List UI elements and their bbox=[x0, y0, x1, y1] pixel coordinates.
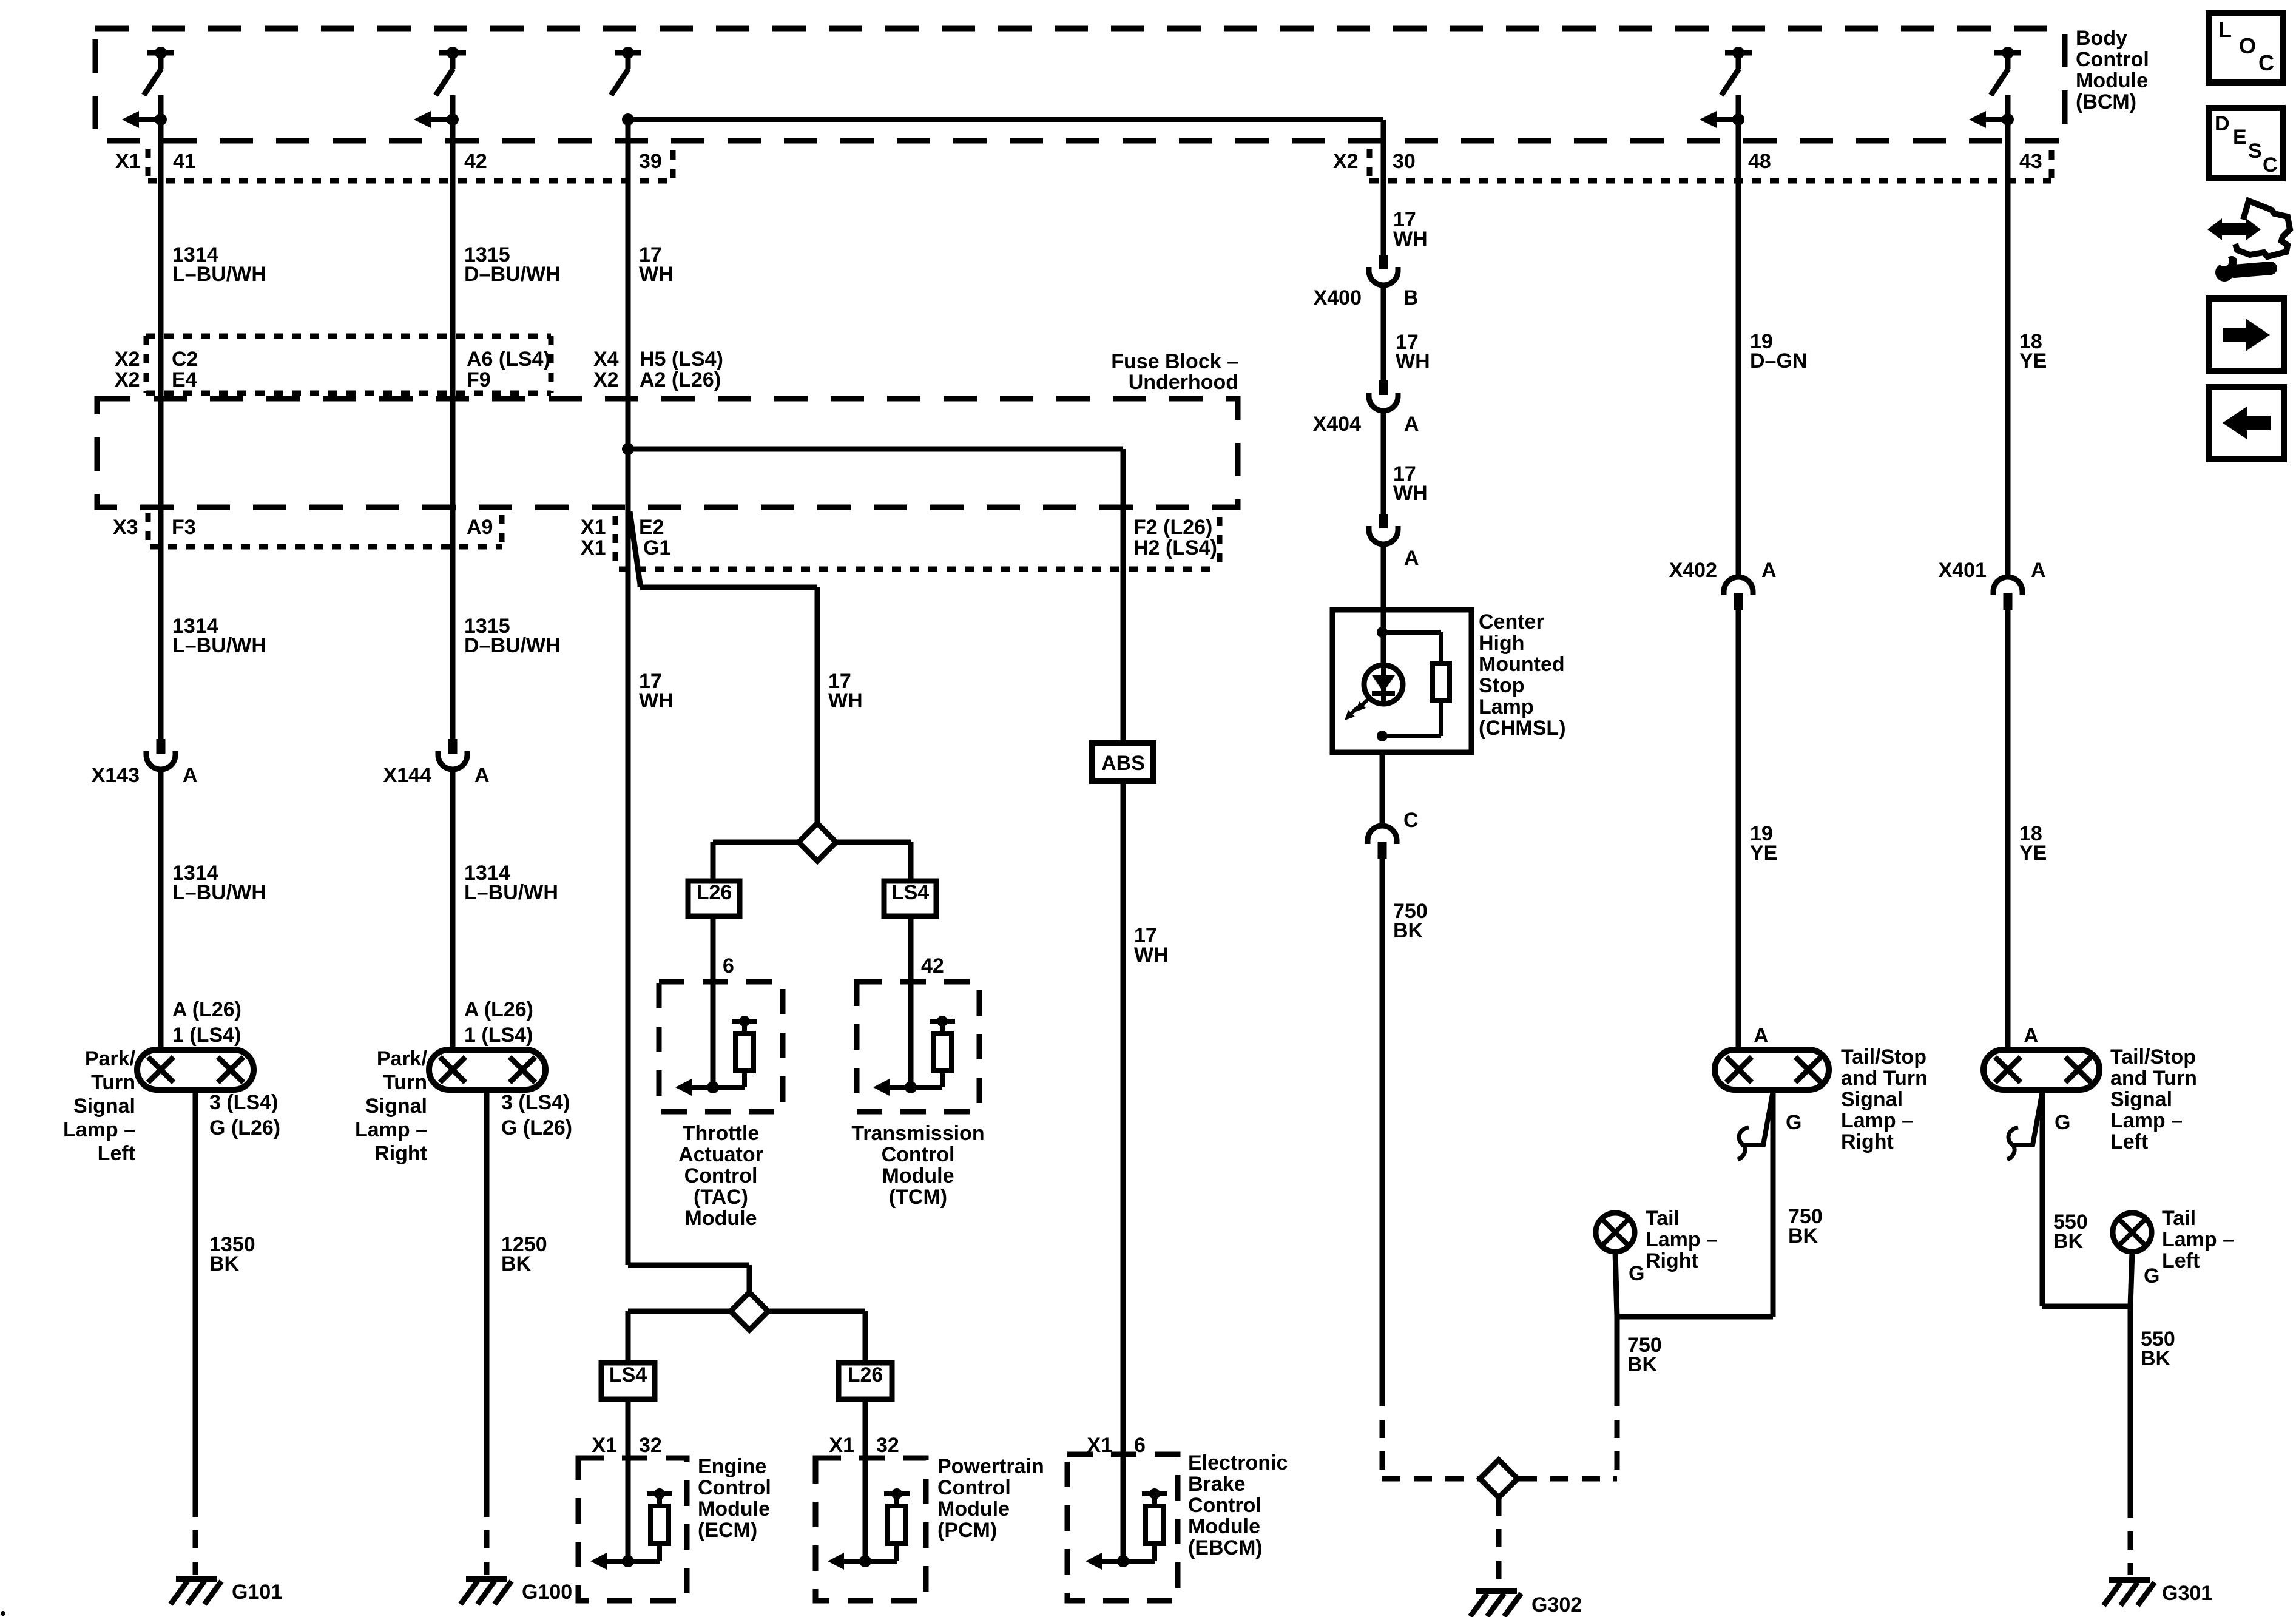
svg-text:X1: X1 bbox=[829, 1434, 854, 1457]
svg-text:Turn: Turn bbox=[91, 1071, 135, 1094]
wire: 17 WH X404 to body connector bbox=[1381, 410, 1386, 514]
svg-text:L: L bbox=[2218, 17, 2232, 42]
svg-text:WH: WH bbox=[639, 689, 674, 712]
svg-text:A: A bbox=[1761, 559, 1777, 582]
wire: 1315 D-BU/WH from BCM pin 42 bbox=[450, 95, 456, 739]
svg-text:X404: X404 bbox=[1313, 413, 1361, 436]
svg-text:30: 30 bbox=[1393, 150, 1416, 173]
wire: 17 WH G1 branch horizontal bbox=[638, 584, 643, 587]
wire: 550 BK to G301 bbox=[2128, 1306, 2133, 1500]
svg-text:Module: Module bbox=[882, 1164, 954, 1187]
wire: 17 WH ABS to EBCM bbox=[1121, 781, 1126, 1561]
svg-text:D–BU/WH: D–BU/WH bbox=[464, 263, 561, 286]
svg-text:LS4: LS4 bbox=[891, 881, 929, 904]
svg-text:Lamp –: Lamp – bbox=[1841, 1109, 1913, 1132]
icon box: DESC bbox=[2209, 108, 2283, 178]
svg-text:Signal: Signal bbox=[1841, 1088, 1903, 1111]
internal pull-up resistor and input arrow of EBCM bbox=[1142, 1491, 1167, 1496]
BCM driver switch output pin 43 bbox=[1994, 50, 2021, 56]
engine option box LS4 (lower) bbox=[601, 1363, 655, 1399]
svg-text:BK: BK bbox=[209, 1252, 240, 1275]
module box: Engine Control Module (ECM), dashed bbox=[578, 1458, 687, 1601]
svg-text:Left: Left bbox=[2162, 1249, 2200, 1272]
svg-text:43: 43 bbox=[2019, 150, 2042, 173]
engine option box L26 bbox=[688, 881, 740, 916]
lamp: Park/Turn Signal Lamp - Right (dual filament) bbox=[429, 1050, 545, 1090]
junction dot in fuse block bbox=[622, 443, 634, 455]
svg-text:A2 (L26): A2 (L26) bbox=[640, 368, 721, 391]
svg-text:H5 (LS4): H5 (LS4) bbox=[640, 348, 723, 371]
connector band X2/X2 dotted box bbox=[146, 334, 551, 339]
svg-text:D–GN: D–GN bbox=[1750, 349, 1807, 373]
wire: 750 BK dashed to splice S3 bbox=[1615, 1388, 1620, 1479]
icon: vehicle repair (double arrow, body outline, wrench) bbox=[2216, 223, 2252, 235]
splice diamond S1 (17 WH) bbox=[799, 823, 836, 861]
svg-text:Lamp –: Lamp – bbox=[2162, 1228, 2234, 1251]
svg-text:Lamp –: Lamp – bbox=[63, 1118, 135, 1141]
wire: 17 WH from BCM pin 39 bbox=[626, 120, 631, 511]
svg-text:X1: X1 bbox=[581, 516, 606, 539]
svg-text:39: 39 bbox=[639, 150, 662, 173]
lamp: Tail Lamp - Left bbox=[2113, 1213, 2152, 1252]
wire: 550 BK lamp left ground bbox=[2040, 1090, 2045, 1306]
connector band X3 dotted line bbox=[150, 544, 502, 550]
wire: dashed splice to G302 bbox=[1496, 1497, 1502, 1586]
wire: dashed drop to G101 bbox=[193, 1499, 198, 1575]
wire: 17 WH from BCM pin 30 bbox=[1381, 142, 1386, 255]
component box ABS bbox=[1092, 743, 1153, 781]
wire: 17 WH X400 to X404 bbox=[1381, 284, 1386, 380]
module box: Transmission Control Module (TCM), dashed bbox=[857, 982, 979, 1112]
svg-text:X4: X4 bbox=[593, 348, 619, 371]
svg-text:A: A bbox=[2024, 1024, 2039, 1047]
svg-text:C2: C2 bbox=[172, 348, 198, 371]
svg-text:Park/: Park/ bbox=[377, 1047, 428, 1070]
wire: L26 to TAC pin 6 bbox=[711, 916, 716, 1089]
svg-text:G (L26): G (L26) bbox=[501, 1116, 572, 1139]
wire: CHMSL resistor bottom bbox=[1439, 701, 1443, 736]
svg-text:Control: Control bbox=[937, 1476, 1011, 1499]
svg-text:A: A bbox=[1404, 413, 1419, 436]
svg-text:G302: G302 bbox=[1531, 1593, 1582, 1616]
svg-text:X1: X1 bbox=[115, 150, 141, 173]
svg-text:X2: X2 bbox=[1333, 150, 1359, 173]
svg-text:F3: F3 bbox=[172, 516, 196, 539]
svg-text:Control: Control bbox=[2076, 48, 2149, 71]
svg-text:A: A bbox=[1404, 547, 1419, 570]
svg-text:Control: Control bbox=[882, 1143, 955, 1166]
svg-text:Turn: Turn bbox=[383, 1071, 427, 1094]
svg-text:L–BU/WH: L–BU/WH bbox=[172, 881, 266, 904]
svg-text:Tail/Stop: Tail/Stop bbox=[1841, 1045, 1926, 1068]
connector band X1 dotted line bbox=[148, 178, 674, 184]
svg-text:Body: Body bbox=[2076, 27, 2127, 50]
svg-text:Tail: Tail bbox=[1646, 1207, 1680, 1230]
wire: 17 WH to ABS bbox=[1121, 449, 1126, 745]
wire: tail lamp right ground lead bbox=[1615, 1252, 1617, 1317]
svg-text:A6 (LS4): A6 (LS4) bbox=[467, 348, 550, 371]
svg-text:G: G bbox=[2055, 1111, 2070, 1134]
wire: branch from pin 39 driver to pin 30 (horizontal) bbox=[628, 117, 1383, 122]
svg-text:ABS: ABS bbox=[1101, 752, 1145, 775]
in-line connector X400 bbox=[1379, 255, 1388, 269]
svg-text:Module: Module bbox=[685, 1207, 757, 1230]
wire: S2 right arm to L26 bbox=[767, 1309, 865, 1314]
svg-text:BK: BK bbox=[1627, 1353, 1658, 1376]
svg-text:WH: WH bbox=[1393, 228, 1428, 251]
svg-text:F2 (L26): F2 (L26) bbox=[1133, 516, 1212, 539]
svg-text:LS4: LS4 bbox=[609, 1363, 647, 1386]
ground symbol G100 bbox=[466, 1576, 507, 1582]
svg-text:A: A bbox=[1754, 1024, 1769, 1047]
svg-text:Left: Left bbox=[2110, 1130, 2148, 1153]
wire: S1 right arm to LS4 bbox=[836, 840, 911, 845]
engine option box L26 (lower) bbox=[839, 1363, 892, 1399]
svg-text:WH: WH bbox=[1393, 482, 1428, 505]
in-line connector X402 bbox=[1724, 577, 1753, 595]
svg-text:BK: BK bbox=[2053, 1230, 2084, 1253]
ground symbol G101 bbox=[176, 1576, 217, 1582]
svg-text:Electronic: Electronic bbox=[1188, 1451, 1288, 1474]
wire: 750 BK to splice bbox=[1615, 1317, 1620, 1388]
svg-text:(TAC): (TAC) bbox=[694, 1186, 748, 1209]
wire: 1314 L-BU/WH below X144 bbox=[450, 768, 456, 1052]
svg-text:Lamp: Lamp bbox=[1479, 695, 1534, 718]
svg-text:G100: G100 bbox=[522, 1581, 572, 1604]
svg-text:C: C bbox=[2263, 154, 2278, 177]
svg-text:L–BU/WH: L–BU/WH bbox=[172, 634, 266, 657]
wire: 550 BK dashed to G301 bbox=[2128, 1500, 2133, 1575]
svg-text:L–BU/WH: L–BU/WH bbox=[464, 881, 558, 904]
svg-text:Powertrain: Powertrain bbox=[937, 1455, 1044, 1478]
svg-text:48: 48 bbox=[1748, 150, 1771, 173]
svg-text:Lamp –: Lamp – bbox=[355, 1118, 427, 1141]
svg-text:G: G bbox=[1629, 1262, 1644, 1285]
BCM driver switch output pin 42 bbox=[439, 50, 466, 56]
junction dot CHMSL top bbox=[1377, 627, 1388, 638]
in-line connector CHMSL pigtail C bbox=[1368, 826, 1397, 844]
svg-text:Control: Control bbox=[698, 1476, 771, 1499]
svg-text:Brake: Brake bbox=[1188, 1473, 1246, 1496]
wire: LS4 to ECM pin 32 bbox=[626, 1399, 631, 1561]
svg-text:BK: BK bbox=[2141, 1347, 2171, 1370]
svg-text:1 (LS4): 1 (LS4) bbox=[464, 1024, 533, 1047]
svg-text:Signal: Signal bbox=[2110, 1088, 2172, 1111]
BCM driver switch output pin 48 bbox=[1725, 50, 1752, 56]
LED lamp symbol in CHMSL bbox=[1364, 665, 1403, 704]
in-line connector CHMSL pigtail A bbox=[1379, 514, 1388, 528]
splice diamond S3 (750 BK grounds) bbox=[1480, 1460, 1518, 1497]
svg-text:BK: BK bbox=[1788, 1224, 1818, 1247]
lamp: Tail/Stop and Turn Signal Lamp - Left (dual filament) bbox=[1984, 1050, 2099, 1090]
junction dot CHMSL bottom bbox=[1377, 731, 1388, 741]
svg-text:X2: X2 bbox=[115, 368, 140, 391]
internal pull-up resistor and input arrow of TCM module bbox=[930, 1019, 955, 1024]
svg-text:YE: YE bbox=[2019, 842, 2047, 865]
wire: 1250 BK from lamp right bbox=[484, 1090, 490, 1499]
svg-text:(PCM): (PCM) bbox=[937, 1519, 997, 1542]
ground symbol G301 bbox=[2109, 1577, 2150, 1583]
lamp: Tail Lamp - Right bbox=[1596, 1213, 1635, 1252]
svg-text:High: High bbox=[1479, 632, 1525, 655]
wire: 19 D-GN from BCM pin 48 bbox=[1736, 95, 1741, 578]
svg-text:X402: X402 bbox=[1669, 559, 1717, 582]
splice diamond S2 (17 WH) bbox=[731, 1292, 768, 1330]
module box: Throttle Actuator Control (TAC) Module, dashed bbox=[659, 982, 783, 1112]
svg-text:Transmission: Transmission bbox=[851, 1122, 984, 1145]
svg-text:D: D bbox=[2215, 112, 2230, 135]
wire: CHMSL internal resistor branch bbox=[1382, 630, 1441, 635]
svg-text:Module: Module bbox=[1188, 1515, 1260, 1538]
module box: Fuse Block - Underhood, dashed bbox=[97, 399, 1238, 507]
svg-text:(TCM): (TCM) bbox=[889, 1186, 947, 1209]
BCM driver switch output pin 41 bbox=[147, 50, 174, 56]
svg-text:WH: WH bbox=[828, 689, 863, 712]
icon box: LOC bbox=[2209, 13, 2283, 83]
svg-text:X3: X3 bbox=[113, 516, 138, 539]
svg-text:H2 (LS4): H2 (LS4) bbox=[1133, 536, 1217, 559]
in-line connector X404 bbox=[1379, 380, 1388, 395]
svg-text:Module: Module bbox=[937, 1497, 1010, 1521]
svg-text:G (L26): G (L26) bbox=[209, 1116, 280, 1139]
svg-text:YE: YE bbox=[2019, 349, 2047, 373]
svg-text:X2: X2 bbox=[115, 348, 140, 371]
svg-text:L26: L26 bbox=[697, 881, 732, 904]
BCM internal arrow at pin 43 bbox=[1986, 117, 2008, 122]
svg-text:G301: G301 bbox=[2162, 1582, 2212, 1605]
svg-text:Signal: Signal bbox=[73, 1095, 135, 1118]
wire: 1314 L-BU/WH from BCM pin 41 bbox=[158, 95, 164, 739]
svg-text:D–BU/WH: D–BU/WH bbox=[464, 634, 561, 657]
wire: tail lamp left ground lead bbox=[2130, 1252, 2132, 1306]
wire: 18 YE from BCM pin 43 bbox=[2005, 95, 2011, 578]
wire: 1350 BK from lamp left bbox=[193, 1090, 198, 1499]
svg-text:Right: Right bbox=[1646, 1249, 1698, 1272]
wire: 750 BK lamp right ground bbox=[1771, 1090, 1776, 1317]
svg-text:WH: WH bbox=[639, 263, 674, 286]
svg-text:X2: X2 bbox=[593, 368, 619, 391]
svg-text:X1: X1 bbox=[592, 1434, 617, 1457]
svg-text:O: O bbox=[2239, 33, 2256, 58]
lamp: Park/Turn Signal Lamp - Left (dual filament) bbox=[137, 1050, 254, 1090]
lamp: Tail/Stop and Turn Signal Lamp - Right (dual filament) bbox=[1715, 1050, 1829, 1090]
svg-text:Mounted: Mounted bbox=[1479, 653, 1565, 676]
lamp housing pigtail hook right bbox=[1741, 1091, 1773, 1145]
svg-text:3 (LS4): 3 (LS4) bbox=[501, 1091, 570, 1114]
svg-text:BK: BK bbox=[1393, 919, 1423, 942]
svg-text:Control: Control bbox=[1188, 1494, 1261, 1517]
svg-text:C: C bbox=[1403, 809, 1419, 832]
BCM internal arrow at pin 41 bbox=[139, 117, 161, 122]
wire: 750 BK below CHMSL bbox=[1380, 859, 1385, 1388]
module box: Electronic Brake Control Module (EBCM), dashed bbox=[1067, 1454, 1178, 1601]
internal pull-up resistor and input arrow of ECM bbox=[647, 1491, 672, 1496]
wire: 1314 L-BU/WH below X143 bbox=[158, 768, 164, 1052]
svg-text:Fuse Block –: Fuse Block – bbox=[1111, 350, 1238, 373]
svg-text:X143: X143 bbox=[92, 764, 140, 787]
svg-text:G101: G101 bbox=[232, 1581, 282, 1604]
svg-text:A9: A9 bbox=[467, 516, 493, 539]
svg-text:32: 32 bbox=[876, 1434, 899, 1457]
wire: 17 WH into CHMSL bbox=[1381, 543, 1386, 665]
svg-text:6: 6 bbox=[723, 954, 734, 977]
svg-text:32: 32 bbox=[639, 1434, 662, 1457]
icon box: arrow right bbox=[2209, 299, 2284, 371]
svg-text:F9: F9 bbox=[467, 368, 491, 391]
icon box: arrow left bbox=[2209, 387, 2284, 459]
svg-text:X401: X401 bbox=[1939, 559, 1987, 582]
junction dot at driver pin 39 output bbox=[622, 113, 634, 126]
wire: fuse block internal to ABS feed bbox=[628, 447, 1123, 452]
svg-text:Module: Module bbox=[2076, 69, 2148, 92]
in-line connector X143 bbox=[157, 739, 166, 754]
svg-text:Actuator: Actuator bbox=[678, 1143, 763, 1166]
ground symbol G302 bbox=[1476, 1588, 1517, 1594]
module box: Powertrain Control Module (PCM), dashed bbox=[815, 1458, 926, 1601]
wire: 17 WH main below fuse block (E2) bbox=[626, 511, 631, 1265]
svg-text:A (L26): A (L26) bbox=[172, 998, 241, 1021]
svg-text:S: S bbox=[2248, 140, 2262, 163]
svg-text:(BCM): (BCM) bbox=[2076, 90, 2136, 113]
svg-text:G1: G1 bbox=[643, 536, 670, 559]
internal pull-up resistor and input arrow of TAC module bbox=[732, 1019, 757, 1024]
svg-text:A: A bbox=[474, 764, 490, 787]
wire: L26 to PCM pin 32 bbox=[863, 1399, 868, 1561]
svg-text:Left: Left bbox=[98, 1142, 135, 1165]
svg-text:(EBCM): (EBCM) bbox=[1188, 1536, 1263, 1559]
svg-text:A: A bbox=[2031, 559, 2046, 582]
svg-text:Control: Control bbox=[684, 1164, 758, 1187]
BCM driver switch output pin 39 bbox=[615, 50, 641, 56]
wire: dashed drop to G100 bbox=[484, 1499, 490, 1575]
svg-text:42: 42 bbox=[921, 954, 944, 977]
svg-text:Engine: Engine bbox=[698, 1455, 766, 1478]
svg-text:G: G bbox=[1786, 1111, 1801, 1134]
svg-text:L26: L26 bbox=[848, 1363, 883, 1386]
svg-text:YE: YE bbox=[1750, 842, 1777, 865]
svg-text:1 (LS4): 1 (LS4) bbox=[172, 1024, 241, 1047]
svg-text:Underhood: Underhood bbox=[1129, 371, 1238, 394]
stray scan dot artifact bottom-left bbox=[1, 1611, 5, 1616]
wire: S1 left arm to L26 bbox=[713, 840, 800, 845]
wire: 17 WH to bottom splice bbox=[628, 1263, 749, 1268]
wire: S2 left arm to LS4 bbox=[628, 1309, 732, 1314]
svg-text:Module: Module bbox=[698, 1497, 770, 1521]
wire: 750 BK dashed to splice bbox=[1380, 1388, 1385, 1479]
engine option box LS4 bbox=[884, 881, 936, 916]
LED emission arrows bbox=[1361, 698, 1369, 706]
wire: 18 YE X401 to lamp bbox=[2005, 610, 2011, 1052]
internal pull-up resistor and input arrow of PCM bbox=[884, 1491, 910, 1496]
svg-text:(CHMSL): (CHMSL) bbox=[1479, 717, 1566, 740]
connector band X2 dotted line bbox=[1369, 178, 2051, 184]
svg-text:41: 41 bbox=[173, 150, 196, 173]
svg-text:Right: Right bbox=[374, 1142, 427, 1165]
svg-text:X144: X144 bbox=[383, 764, 431, 787]
svg-text:E2: E2 bbox=[639, 516, 664, 539]
resistor inside CHMSL bbox=[1433, 663, 1450, 701]
BCM internal arrow at pin 42 bbox=[431, 117, 453, 122]
in-line connector X144 bbox=[448, 739, 458, 754]
svg-text:Lamp –: Lamp – bbox=[2110, 1109, 2183, 1132]
connector band X1/X1 dotted line bbox=[619, 567, 1220, 572]
svg-text:X1: X1 bbox=[581, 536, 606, 559]
wire: dashed splice horizontal bbox=[1382, 1476, 1479, 1482]
wire: 19 YE X402 to lamp bbox=[1736, 610, 1741, 1052]
BCM internal arrow at pin 48 bbox=[1717, 117, 1738, 122]
wire: 17 WH G1 branch slant bbox=[630, 511, 640, 584]
lamp housing pigtail hook left bbox=[2011, 1091, 2042, 1145]
svg-text:Stop: Stop bbox=[1479, 674, 1525, 697]
svg-text:Lamp –: Lamp – bbox=[1646, 1228, 1718, 1251]
svg-text:E: E bbox=[2233, 126, 2247, 149]
svg-text:WH: WH bbox=[1134, 944, 1169, 967]
in-line connector X401 bbox=[1993, 577, 2022, 595]
svg-text:42: 42 bbox=[464, 150, 487, 173]
svg-text:Throttle: Throttle bbox=[683, 1122, 760, 1145]
svg-text:C: C bbox=[2258, 50, 2274, 75]
svg-text:Tail/Stop: Tail/Stop bbox=[2110, 1045, 2196, 1068]
svg-text:BK: BK bbox=[501, 1252, 532, 1275]
wire: LS4 to TCM pin 42 bbox=[908, 916, 914, 1089]
svg-text:and Turn: and Turn bbox=[1841, 1067, 1928, 1090]
svg-text:WH: WH bbox=[1396, 350, 1430, 373]
svg-text:Center: Center bbox=[1479, 610, 1544, 633]
svg-text:(ECM): (ECM) bbox=[698, 1519, 757, 1542]
svg-text:E4: E4 bbox=[172, 368, 197, 391]
svg-text:G: G bbox=[2144, 1264, 2159, 1288]
svg-text:Right: Right bbox=[1841, 1130, 1894, 1153]
svg-text:L–BU/WH: L–BU/WH bbox=[172, 263, 266, 286]
svg-text:A (L26): A (L26) bbox=[464, 998, 533, 1021]
svg-text:X400: X400 bbox=[1314, 286, 1362, 309]
svg-text:A: A bbox=[183, 764, 198, 787]
component box: Center High Mounted Stop Lamp (CHMSL) bbox=[1332, 610, 1471, 752]
wire: CHMSL to pin C bbox=[1380, 752, 1385, 827]
svg-text:Tail: Tail bbox=[2162, 1207, 2196, 1230]
svg-text:3 (LS4): 3 (LS4) bbox=[209, 1091, 278, 1114]
svg-text:Signal: Signal bbox=[365, 1095, 427, 1118]
svg-text:Park/: Park/ bbox=[85, 1047, 136, 1070]
svg-text:B: B bbox=[1403, 286, 1419, 309]
svg-text:and Turn: and Turn bbox=[2110, 1067, 2197, 1090]
module box: Body Control Module (BCM), dashed outline bbox=[95, 29, 2065, 141]
